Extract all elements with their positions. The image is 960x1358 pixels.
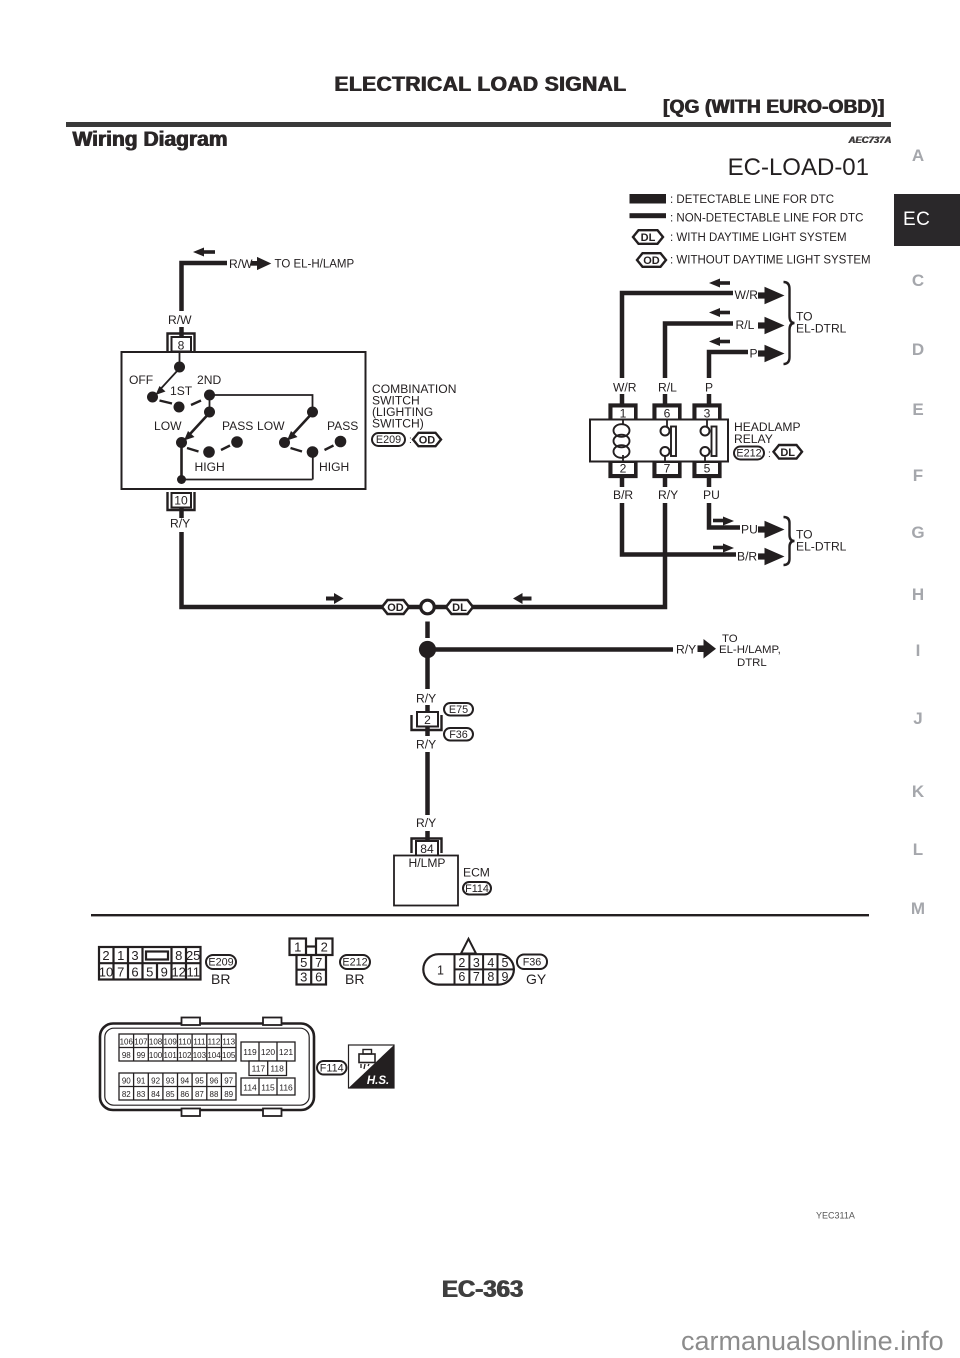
legend OD hexagon xyxy=(637,253,666,267)
svg-text:10: 10 xyxy=(99,964,113,979)
svg-text:7: 7 xyxy=(117,964,124,979)
svg-text:B/R: B/R xyxy=(737,550,757,564)
svg-text:R/L: R/L xyxy=(658,381,677,395)
svg-text:5: 5 xyxy=(704,462,711,476)
svg-text:1: 1 xyxy=(437,963,444,977)
svg-text:BR: BR xyxy=(345,971,364,987)
svg-text:EC-LOAD-01: EC-LOAD-01 xyxy=(728,154,869,181)
side tab E xyxy=(898,401,938,418)
svg-text:W/R: W/R xyxy=(735,288,759,302)
svg-text:OD: OD xyxy=(643,255,660,267)
svg-text:EL-H/LAMP,: EL-H/LAMP, xyxy=(719,644,781,656)
svg-text:114: 114 xyxy=(243,1083,257,1093)
svg-text:110: 110 xyxy=(178,1038,191,1047)
arrow left P branch xyxy=(709,337,730,346)
ECM connector numbers 114-116 xyxy=(243,1083,293,1093)
relay pin 2 box xyxy=(612,462,636,476)
svg-text:10: 10 xyxy=(174,494,188,508)
svg-text:5: 5 xyxy=(300,955,307,970)
svg-text:112: 112 xyxy=(208,1038,221,1047)
switch arm arrow to LOW xyxy=(184,415,208,441)
ECM box xyxy=(394,856,458,906)
connector ref E209 oval bottom xyxy=(206,955,236,969)
svg-text:2: 2 xyxy=(321,940,328,955)
svg-text:DTRL: DTRL xyxy=(737,657,767,669)
connector pin 8 bracket xyxy=(168,334,195,353)
ECM connector numbers 117-118 xyxy=(252,1064,285,1074)
connector E212 pin numbers xyxy=(294,940,328,985)
svg-text:W/R: W/R xyxy=(613,381,637,395)
relay pin 6 bracket xyxy=(654,405,681,420)
svg-text:OD: OD xyxy=(419,435,436,447)
headlamp relay box xyxy=(590,420,728,462)
label TO EL-DTRL upper xyxy=(796,310,847,336)
wire W/R branch xyxy=(622,293,733,378)
side tab EC xyxy=(894,194,960,246)
side tab K xyxy=(898,783,938,800)
junction dot bottom xyxy=(177,475,186,484)
relay pin 7 box xyxy=(656,462,680,476)
svg-text:86: 86 xyxy=(180,1090,189,1099)
svg-text:104: 104 xyxy=(207,1051,221,1060)
legend non-detectable line bar xyxy=(630,213,667,218)
relay pin 2 bracket xyxy=(610,462,637,477)
ECM connector grid lower-left xyxy=(119,1073,236,1100)
svg-text:F36: F36 xyxy=(523,957,542,969)
watermark carmanualsonline.info xyxy=(681,1326,944,1357)
svg-text:116: 116 xyxy=(279,1083,293,1093)
svg-text:PU: PU xyxy=(741,523,758,537)
relay coil xyxy=(614,420,630,462)
contact dot PASS right xyxy=(335,436,347,448)
svg-text:GY: GY xyxy=(526,971,547,987)
svg-text:TO EL-H/LAMP: TO EL-H/LAMP xyxy=(275,259,355,271)
brace TO EL-DTRL lower xyxy=(784,517,795,565)
figure bottom rule xyxy=(91,914,869,916)
svg-text:R/Y: R/Y xyxy=(416,738,436,752)
brace TO EL-DTRL upper xyxy=(784,282,795,364)
svg-text:OD: OD xyxy=(387,602,404,614)
svg-text:3: 3 xyxy=(131,948,138,963)
wire R/W to EL-H/LAMP xyxy=(182,263,228,311)
svg-text:P: P xyxy=(705,381,713,395)
svg-text:2: 2 xyxy=(102,948,109,963)
svg-text:91: 91 xyxy=(136,1077,145,1086)
wire splice down xyxy=(425,622,430,639)
switch common contact dot xyxy=(174,362,185,373)
relay pin 6 box xyxy=(656,407,680,421)
label HEADLAMP RELAY xyxy=(734,420,801,446)
arrow right PU to EL-DTRL xyxy=(758,521,785,539)
svg-text:R/Y: R/Y xyxy=(416,816,436,830)
svg-text:R/W: R/W xyxy=(229,257,253,271)
OD hexagon on main run xyxy=(382,600,409,614)
svg-text:87: 87 xyxy=(195,1090,204,1099)
arrow left W/R branch xyxy=(709,279,730,288)
wire stub splice to DL xyxy=(435,605,447,610)
svg-text:3: 3 xyxy=(300,970,307,985)
junction solid dot xyxy=(419,641,436,658)
wire long down to ECM xyxy=(425,727,430,737)
svg-text:97: 97 xyxy=(224,1077,233,1086)
svg-text::: : xyxy=(409,435,412,446)
connector pin 10 bracket xyxy=(168,492,195,510)
connector E212 pin grid xyxy=(290,939,333,985)
contact dot PASS left xyxy=(231,436,243,448)
svg-text:R/W: R/W xyxy=(168,313,192,327)
wire B/R branch xyxy=(620,477,625,487)
connector ref E212 oval bottom xyxy=(340,955,370,969)
arrow right R/L to EL-DTRL xyxy=(758,317,785,335)
relay pin 1 box xyxy=(612,407,636,421)
svg-text:92: 92 xyxy=(151,1077,160,1086)
side tab F xyxy=(898,467,938,484)
svg-text:PASS: PASS xyxy=(222,419,253,433)
svg-text:ECM: ECM xyxy=(463,866,490,880)
contact dot right pivot xyxy=(307,407,318,418)
wire HIGH right down xyxy=(312,452,314,480)
ECM connector F114 inner shell xyxy=(105,1028,309,1105)
svg-text:88: 88 xyxy=(210,1090,219,1099)
svg-text:YEC311A: YEC311A xyxy=(816,1211,855,1221)
legend detectable line bar xyxy=(630,194,667,204)
svg-text:PU: PU xyxy=(703,488,720,502)
dash LOW-HIGH left xyxy=(187,448,199,452)
svg-text:5: 5 xyxy=(502,956,509,970)
relay contact pin 6 xyxy=(661,420,677,462)
side tab I xyxy=(898,642,938,659)
wire main run right segment xyxy=(472,503,665,607)
svg-text:EL-DTRL: EL-DTRL xyxy=(796,322,847,336)
relay pin 1 bracket xyxy=(610,405,637,420)
side tab A xyxy=(898,147,938,164)
combination switch box xyxy=(122,352,366,489)
svg-text:3: 3 xyxy=(473,956,480,970)
wire R/L branch xyxy=(665,324,733,379)
svg-text:84: 84 xyxy=(420,842,434,856)
svg-text:98: 98 xyxy=(122,1051,131,1060)
svg-text:PASS: PASS xyxy=(327,419,358,433)
svg-text:111: 111 xyxy=(193,1038,206,1047)
svg-text:96: 96 xyxy=(210,1077,219,1086)
contact dot LOW left xyxy=(176,437,187,448)
svg-text:113: 113 xyxy=(222,1038,235,1047)
relay pin 5 bracket xyxy=(694,462,721,477)
arrow right B/R to EL-DTRL xyxy=(758,548,785,566)
svg-text:105: 105 xyxy=(222,1051,236,1060)
contact dot OFF xyxy=(147,392,158,403)
svg-text:: WITH DAYTIME LIGHT SYSTEM: : WITH DAYTIME LIGHT SYSTEM xyxy=(670,232,847,244)
svg-text:E75: E75 xyxy=(449,704,468,716)
arrow right to EL-H/LAMP DTRL xyxy=(698,639,717,659)
wire junction to right xyxy=(428,647,674,652)
DL hexagon on main run xyxy=(446,600,473,614)
connector E209 pin numbers xyxy=(99,948,201,979)
ECM connector grid right 117-118 xyxy=(249,1061,287,1076)
contact dot 1ST xyxy=(174,402,185,413)
svg-text:P: P xyxy=(750,347,758,361)
side tab D xyxy=(898,341,938,358)
svg-text:E212: E212 xyxy=(342,957,367,969)
svg-text:: WITHOUT DAYTIME LIGHT SYSTEM: : WITHOUT DAYTIME LIGHT SYSTEM xyxy=(670,255,871,267)
ECM connector notch bottom right xyxy=(263,1109,282,1117)
ECM connector grid lower-left numbers xyxy=(122,1077,234,1100)
svg-text:R/Y: R/Y xyxy=(170,517,190,531)
page number EC-363 xyxy=(0,1276,960,1304)
dash LOW-HIGH right xyxy=(291,448,303,452)
wire junction down xyxy=(425,655,430,689)
svg-text:119: 119 xyxy=(243,1047,257,1057)
svg-text:R/L: R/L xyxy=(736,318,755,332)
side tab H xyxy=(898,586,938,603)
svg-text:1: 1 xyxy=(294,940,301,955)
connector pin 84 box xyxy=(416,841,438,856)
svg-text:BR: BR xyxy=(211,971,230,987)
svg-text:8: 8 xyxy=(487,970,494,984)
relay contact pin 3 xyxy=(701,420,717,462)
connector ref F36 oval bottom xyxy=(517,955,547,970)
svg-text:108: 108 xyxy=(149,1038,163,1047)
label TO EL-DTRL lower xyxy=(796,528,847,554)
svg-text:H/LMP: H/LMP xyxy=(409,856,446,870)
switch arm arrow to OFF xyxy=(156,370,179,395)
svg-text:E212: E212 xyxy=(736,448,761,460)
side tab J xyxy=(898,710,938,727)
wire into junction box xyxy=(425,705,430,714)
svg-text:6: 6 xyxy=(664,407,671,421)
svg-text:83: 83 xyxy=(136,1090,145,1099)
svg-text:H.S.: H.S. xyxy=(367,1075,389,1087)
svg-text:OFF: OFF xyxy=(129,373,153,387)
svg-text:118: 118 xyxy=(270,1064,284,1074)
connector pin 10 box xyxy=(172,493,192,508)
junction connector bracket xyxy=(412,715,442,730)
ECM connector grid right 119-121 xyxy=(241,1042,295,1061)
ECM connector notch bottom left xyxy=(182,1109,201,1117)
svg-text:: DETECTABLE LINE FOR DTC: : DETECTABLE LINE FOR DTC xyxy=(670,194,834,206)
svg-text:5: 5 xyxy=(146,964,153,979)
ECM connector grid right 114-116 xyxy=(241,1078,295,1095)
connector ref E209 oval xyxy=(372,433,412,446)
svg-text:R/Y: R/Y xyxy=(676,643,696,657)
svg-text:82: 82 xyxy=(122,1090,131,1099)
dash 1ST-2ND xyxy=(191,401,201,406)
contact dot HIGH right xyxy=(307,446,319,458)
svg-text:HIGH: HIGH xyxy=(319,460,349,474)
svg-text:7: 7 xyxy=(664,462,671,476)
svg-text:SWITCH): SWITCH) xyxy=(372,417,424,431)
contact dot 2ND xyxy=(204,390,215,401)
legend DL hexagon xyxy=(633,230,663,244)
svg-text:2: 2 xyxy=(620,462,627,476)
connector F36 triangle key xyxy=(461,939,476,954)
svg-text:11: 11 xyxy=(186,964,200,979)
svg-text:117: 117 xyxy=(252,1064,266,1074)
connector ref E212 oval xyxy=(734,447,771,461)
svg-text:8: 8 xyxy=(175,948,182,963)
relay pin 5 box xyxy=(696,462,720,476)
contact dot LOW right xyxy=(279,437,290,448)
arrow left R/L branch xyxy=(709,308,730,317)
arrow right above PU xyxy=(713,517,734,526)
arrow right to EL-H/LAMP xyxy=(251,257,271,270)
relay pin 3 box xyxy=(696,407,720,421)
connector F36 shell xyxy=(423,954,514,984)
label COMBINATION SWITCH xyxy=(372,382,456,431)
connector pin 8 box xyxy=(172,337,192,353)
OD hexagon at switch xyxy=(413,433,441,447)
svg-text:DL: DL xyxy=(641,232,656,244)
svg-text:25: 25 xyxy=(186,948,200,963)
relay pin 7 bracket xyxy=(654,462,681,477)
junction connector box pin 2 xyxy=(417,712,438,727)
svg-text::: : xyxy=(768,449,771,460)
svg-text:2ND: 2ND xyxy=(197,373,221,387)
relay pin 3 bracket xyxy=(694,405,721,420)
contact dot HIGH left xyxy=(203,446,215,458)
wire PU branch xyxy=(707,477,712,487)
side tab C xyxy=(898,272,938,289)
svg-text:1ST: 1ST xyxy=(170,384,193,398)
svg-text:9: 9 xyxy=(161,964,168,979)
svg-text:R/Y: R/Y xyxy=(658,488,678,502)
wire R/Y main run xyxy=(179,507,184,518)
svg-text:109: 109 xyxy=(164,1038,178,1047)
svg-text:7: 7 xyxy=(473,970,480,984)
wire bottom rail xyxy=(182,479,313,481)
svg-text:7: 7 xyxy=(315,955,322,970)
rule under header xyxy=(66,122,891,127)
svg-text:115: 115 xyxy=(261,1083,275,1093)
ECM connector numbers 119-121 xyxy=(243,1047,293,1057)
connector F36 pin numbers xyxy=(437,956,509,984)
section heading xyxy=(72,128,227,152)
svg-text:120: 120 xyxy=(261,1047,275,1057)
wire stub OD to splice xyxy=(408,605,420,610)
svg-text:85: 85 xyxy=(166,1090,175,1099)
svg-text:4: 4 xyxy=(487,956,494,970)
svg-text:9: 9 xyxy=(502,970,509,984)
arrow left small top-left xyxy=(193,248,215,257)
ECM connector notch top right xyxy=(263,1018,282,1026)
label TO EL-H/LAMP DTRL xyxy=(719,633,781,669)
side tab M xyxy=(898,900,938,917)
HS emblem connector icon xyxy=(359,1050,375,1070)
svg-text:95: 95 xyxy=(195,1077,204,1086)
svg-text:8: 8 xyxy=(178,339,185,353)
arrow right on main run xyxy=(326,593,344,604)
svg-text:E209: E209 xyxy=(376,434,401,446)
connector ref F114 oval xyxy=(463,882,491,895)
svg-text:93: 93 xyxy=(166,1077,175,1086)
svg-text:F114: F114 xyxy=(465,883,489,895)
connector ref F36 oval xyxy=(444,728,473,741)
svg-text:6: 6 xyxy=(458,970,465,984)
svg-text:: NON-DETECTABLE LINE FOR DTC: : NON-DETECTABLE LINE FOR DTC xyxy=(670,213,863,225)
dash HIGH-PASS right xyxy=(325,446,334,451)
page title xyxy=(0,73,960,97)
svg-text:106: 106 xyxy=(120,1038,134,1047)
svg-text:HIGH: HIGH xyxy=(195,460,225,474)
svg-text:LOW: LOW xyxy=(257,419,285,433)
svg-text:12: 12 xyxy=(171,964,185,979)
connector pin 84 bracket xyxy=(412,839,442,854)
side tab G xyxy=(898,524,938,541)
svg-text:R/Y: R/Y xyxy=(416,692,436,706)
svg-text:E209: E209 xyxy=(208,957,233,969)
contact dot low-beam pivot xyxy=(204,407,215,418)
svg-text:2: 2 xyxy=(424,713,431,727)
svg-text:3: 3 xyxy=(704,407,711,421)
svg-text:103: 103 xyxy=(193,1051,207,1060)
DL hexagon at relay xyxy=(774,445,803,459)
wire P branch xyxy=(709,352,748,378)
svg-text:LOW: LOW xyxy=(154,419,182,433)
svg-text:EL-DTRL: EL-DTRL xyxy=(796,540,847,554)
svg-text:DL: DL xyxy=(780,447,795,459)
arrow right P to EL-DTRL xyxy=(758,345,785,363)
svg-text:F114: F114 xyxy=(320,1063,344,1075)
svg-text:RELAY: RELAY xyxy=(734,432,773,446)
figure code small xyxy=(848,135,891,146)
svg-text:2: 2 xyxy=(458,956,465,970)
wire 2ND stem xyxy=(209,395,211,412)
ECM connector notch top left xyxy=(182,1018,201,1026)
svg-text:DL: DL xyxy=(452,602,467,614)
ECM connector grid upper-left xyxy=(119,1034,236,1061)
ECM connector grid upper-left numbers xyxy=(120,1038,236,1061)
svg-text:102: 102 xyxy=(178,1051,192,1060)
arrow right above B/R xyxy=(713,544,734,553)
HS emblem square xyxy=(349,1045,395,1088)
svg-text:121: 121 xyxy=(279,1047,293,1057)
arrow right W/R to EL-DTRL xyxy=(758,287,785,305)
connector ref F114 oval bottom xyxy=(317,1061,347,1075)
wire LOW down thick xyxy=(180,443,183,480)
dash HIGH-PASS left xyxy=(221,446,230,451)
svg-text:6: 6 xyxy=(131,964,138,979)
svg-text:1: 1 xyxy=(117,948,124,963)
svg-text:89: 89 xyxy=(224,1090,233,1099)
connector ref E75 oval xyxy=(444,703,473,716)
svg-text:F36: F36 xyxy=(449,729,468,741)
splice open circle xyxy=(421,600,435,614)
wire 2ND to right group xyxy=(210,395,313,412)
wire pin8 into switch xyxy=(179,352,181,366)
ECM connector F114 outer shell xyxy=(100,1024,314,1111)
svg-text:94: 94 xyxy=(180,1077,189,1086)
svg-text:84: 84 xyxy=(151,1090,160,1099)
side tab L xyxy=(898,841,938,858)
section tag xyxy=(663,97,884,119)
svg-text:1: 1 xyxy=(620,407,627,421)
dash OFF-1ST xyxy=(160,401,173,404)
svg-text:101: 101 xyxy=(164,1051,178,1060)
svg-text:6: 6 xyxy=(315,970,322,985)
arrow left on main run xyxy=(513,593,532,604)
svg-text:107: 107 xyxy=(134,1038,148,1047)
svg-text:99: 99 xyxy=(136,1051,145,1060)
svg-text:90: 90 xyxy=(122,1077,131,1086)
wire stub into pin 84 xyxy=(425,831,430,843)
switch arm arrow to LOW right xyxy=(287,415,311,441)
svg-text:100: 100 xyxy=(149,1051,163,1060)
connector F36 pin grid xyxy=(455,954,514,984)
connector E209 pin grid xyxy=(99,947,201,980)
svg-text:B/R: B/R xyxy=(613,488,633,502)
